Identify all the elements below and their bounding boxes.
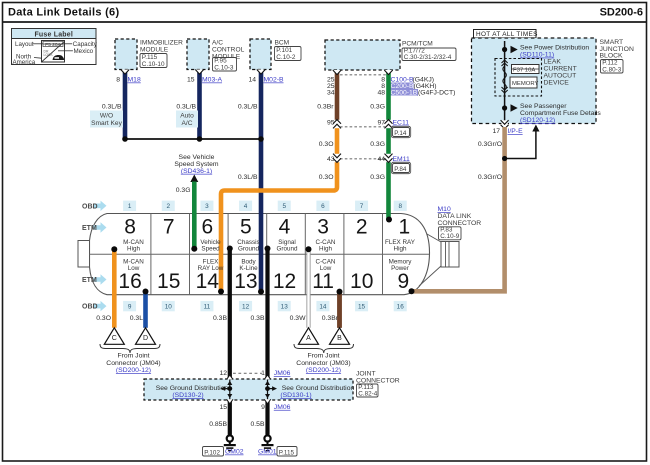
svg-text:P.115: P.115 bbox=[279, 449, 295, 456]
svg-text:8: 8 bbox=[398, 203, 402, 210]
svg-text:5: 5 bbox=[240, 216, 252, 239]
svg-text:A/C: A/C bbox=[212, 40, 223, 47]
sheet number SD200-6 bbox=[600, 7, 643, 19]
in-line connector EC11 bbox=[327, 120, 411, 138]
svg-text:See Ground Distribution: See Ground Distribution bbox=[156, 385, 229, 392]
svg-text:0.85B: 0.85B bbox=[209, 421, 227, 428]
svg-text:(SD200-12): (SD200-12) bbox=[306, 367, 341, 374]
svg-text:Connector (JM03): Connector (JM03) bbox=[296, 360, 350, 367]
svg-text:C.10-3: C.10-3 bbox=[214, 64, 234, 71]
svg-text:16: 16 bbox=[118, 270, 141, 293]
svg-text:IMMOBILIZER: IMMOBILIZER bbox=[140, 40, 183, 47]
svg-text:95: 95 bbox=[327, 120, 335, 127]
wire 0.3L M-CAN Low pin 16 to joint connector D bbox=[130, 292, 146, 328]
svg-text:Layout: Layout bbox=[15, 41, 34, 48]
svg-text:CURRENT: CURRENT bbox=[544, 66, 577, 73]
pin function labels top row bbox=[123, 239, 416, 253]
svg-text:(G4FJ-DCT): (G4FJ-DCT) bbox=[418, 90, 455, 97]
svg-text:P.102: P.102 bbox=[204, 449, 220, 456]
module box PCM/TCM bbox=[325, 40, 456, 70]
circuit tags 9-16 bbox=[123, 301, 407, 311]
svg-text:RAY Low: RAY Low bbox=[198, 265, 224, 272]
svg-text:0.3L/B: 0.3L/B bbox=[102, 103, 122, 110]
connector side view keying bbox=[419, 234, 459, 286]
brace + caption From Joint Connector (JM04) bbox=[100, 344, 161, 374]
svg-text:34: 34 bbox=[327, 90, 335, 97]
svg-text:0.3B: 0.3B bbox=[251, 315, 265, 322]
HOT AT ALL TIMES banner bbox=[474, 30, 538, 39]
svg-text:SD200-6: SD200-6 bbox=[600, 7, 643, 19]
in-line connector I/P-E pin 17 bbox=[492, 120, 523, 135]
svg-text:9: 9 bbox=[397, 270, 409, 293]
svg-text:HOT AT ALL TIMES: HOT AT ALL TIMES bbox=[476, 31, 538, 38]
svg-text:9: 9 bbox=[261, 404, 265, 411]
legend callout labels bbox=[13, 41, 98, 66]
svg-text:C.10-9: C.10-9 bbox=[440, 233, 459, 240]
PCM/TCM pin rows and connectors bbox=[327, 75, 455, 97]
branch arrow up into SJB bbox=[502, 125, 540, 162]
module box IMMOBILIZER MODULE bbox=[115, 39, 183, 70]
svg-text:0.3G: 0.3G bbox=[370, 174, 385, 181]
svg-text:14: 14 bbox=[196, 270, 220, 293]
svg-text:0.3O: 0.3O bbox=[319, 141, 334, 148]
data link connector M10 outline bbox=[78, 214, 430, 295]
JM06 outlet pins 15 / 9 bbox=[219, 404, 290, 411]
ETM arrow top bbox=[82, 222, 107, 232]
wire labels 0.85B / 0.5B bbox=[209, 421, 265, 428]
svg-text:F37 10A: F37 10A bbox=[513, 67, 535, 73]
svg-text:GM02: GM02 bbox=[225, 449, 244, 456]
JM06 inlet pins 12 / 1 bbox=[219, 370, 290, 377]
svg-text:High: High bbox=[394, 246, 407, 253]
svg-text:(SD200-12): (SD200-12) bbox=[116, 367, 151, 374]
svg-text:0.3G: 0.3G bbox=[176, 187, 191, 194]
svg-text:OBD: OBD bbox=[82, 304, 98, 311]
svg-text:A: A bbox=[306, 335, 311, 342]
pin junction dots bbox=[111, 217, 414, 295]
svg-text:0.3L/B: 0.3L/B bbox=[238, 174, 258, 181]
svg-text:43: 43 bbox=[327, 156, 335, 163]
module exit notches bbox=[121, 70, 393, 75]
wire 0.3G vehicle speed to pin 6 bbox=[176, 175, 199, 249]
svg-text:Power: Power bbox=[391, 265, 409, 272]
joint connector terminal D bbox=[136, 328, 156, 345]
wire 0.3B signal ground pin 4 bbox=[251, 249, 268, 435]
svg-text:Mexico: Mexico bbox=[74, 48, 94, 55]
svg-text:11: 11 bbox=[312, 270, 334, 293]
svg-text:0.5B: 0.5B bbox=[251, 421, 265, 428]
svg-text:High: High bbox=[127, 246, 140, 253]
svg-text:D: D bbox=[143, 335, 148, 342]
svg-text:EM11: EM11 bbox=[393, 156, 410, 163]
svg-text:8: 8 bbox=[124, 216, 136, 239]
svg-text:0.3W: 0.3W bbox=[290, 315, 306, 322]
svg-text:Connector (JM04): Connector (JM04) bbox=[106, 360, 160, 367]
svg-text:(SD120-12): (SD120-12) bbox=[520, 117, 555, 124]
svg-text:See Vehicle: See Vehicle bbox=[179, 154, 215, 161]
svg-text:BCM: BCM bbox=[275, 40, 290, 47]
svg-text:4: 4 bbox=[244, 203, 248, 210]
wire 0.3 L/B from A/C control bbox=[176, 70, 199, 140]
svg-text:P.14: P.14 bbox=[394, 130, 407, 137]
svg-text:Low: Low bbox=[320, 265, 332, 272]
svg-text:GM01: GM01 bbox=[258, 449, 277, 456]
connector pin numbers bottom row bbox=[118, 270, 409, 293]
svg-text:ETM: ETM bbox=[82, 277, 97, 284]
svg-text:Capacity: Capacity bbox=[73, 41, 98, 48]
OBD arrow top bbox=[82, 201, 107, 211]
svg-text:0.3B: 0.3B bbox=[213, 315, 227, 322]
pin function labels bottom row bbox=[123, 259, 412, 273]
joint connector terminal B bbox=[330, 328, 350, 345]
wire 0.3W C-CAN High pin 3 to joint connector A bbox=[290, 249, 309, 328]
JM06 internal arrow links bbox=[220, 375, 277, 404]
wire 0.3 L/B from BCM to pin 13 bbox=[238, 70, 261, 292]
svg-text:Ground: Ground bbox=[238, 246, 260, 253]
wire 0.3Gr/O memory power to pin 9 bbox=[412, 127, 505, 291]
svg-text:0.3Gr/O: 0.3Gr/O bbox=[478, 174, 502, 181]
pin 8 / connector M18 bbox=[116, 77, 141, 84]
svg-text:BLOCK: BLOCK bbox=[600, 53, 624, 60]
svg-text:12: 12 bbox=[242, 304, 250, 311]
svg-text:0.3Br: 0.3Br bbox=[317, 103, 334, 110]
svg-text:AUTOCUT: AUTOCUT bbox=[544, 73, 577, 80]
svg-text:(SD130-1): (SD130-1) bbox=[280, 392, 311, 399]
svg-text:0.3L: 0.3L bbox=[130, 315, 143, 322]
svg-text:EC11: EC11 bbox=[393, 120, 410, 127]
svg-text:C.82-4: C.82-4 bbox=[358, 390, 377, 397]
wire 0.3O EC11 to EM11 to pin 14 bbox=[221, 121, 337, 292]
smart junction block caption bbox=[600, 39, 634, 73]
smart junction block dashed box bbox=[472, 38, 597, 124]
svg-text:15: 15 bbox=[157, 270, 180, 293]
svg-text:LEAK: LEAK bbox=[544, 59, 562, 66]
fuse label legend box bbox=[12, 29, 97, 65]
ground GM02 bbox=[203, 435, 244, 456]
svg-text:Auto: Auto bbox=[180, 113, 194, 120]
wire 0.3B chassis ground pin 5 bbox=[213, 249, 230, 435]
svg-text:PCM/TCM: PCM/TCM bbox=[402, 41, 433, 48]
svg-text:17: 17 bbox=[492, 128, 500, 135]
module box A/C CONTROL MODULE bbox=[187, 39, 245, 71]
svg-text:15: 15 bbox=[187, 77, 195, 84]
svg-text:12: 12 bbox=[273, 270, 296, 293]
svg-text:C.30-2/31-2/32-4: C.30-2/31-2/32-4 bbox=[404, 54, 452, 61]
svg-text:0.3G: 0.3G bbox=[370, 103, 385, 110]
svg-text:C: C bbox=[112, 335, 117, 342]
joint connector caption bbox=[356, 371, 400, 398]
svg-text:M03-A: M03-A bbox=[202, 77, 222, 84]
svg-text:13: 13 bbox=[234, 270, 257, 293]
svg-text:C500-1B: C500-1B bbox=[391, 90, 418, 97]
pin 15 / connector M03-A bbox=[187, 77, 223, 84]
OBD arrow bottom bbox=[82, 301, 107, 311]
svg-text:6: 6 bbox=[201, 216, 213, 239]
svg-text:44: 44 bbox=[377, 156, 385, 163]
svg-text:DEVICE: DEVICE bbox=[544, 80, 570, 87]
svg-text:MODULE: MODULE bbox=[140, 47, 169, 54]
svg-text:0.3L/B: 0.3L/B bbox=[238, 103, 258, 110]
svg-text:0.3Gr/O: 0.3Gr/O bbox=[478, 141, 502, 148]
svg-text:MEMORY: MEMORY bbox=[512, 81, 538, 87]
tag W/O Smart Key bbox=[90, 111, 123, 128]
tag Auto A/C bbox=[176, 111, 198, 128]
svg-text:2: 2 bbox=[356, 216, 368, 239]
svg-text:Compartment Fuse Details: Compartment Fuse Details bbox=[520, 110, 601, 117]
svg-text:CONTROL: CONTROL bbox=[212, 47, 245, 54]
see ground distribution captions bbox=[156, 385, 355, 399]
node: see power distribution bbox=[502, 45, 589, 59]
joint connector terminal C bbox=[104, 328, 124, 345]
svg-text:10: 10 bbox=[165, 304, 173, 311]
svg-text:I/P-E: I/P-E bbox=[508, 128, 524, 135]
svg-text:High: High bbox=[319, 246, 332, 253]
svg-text:ETM: ETM bbox=[82, 225, 97, 232]
leak current autocut device box bbox=[495, 59, 542, 97]
SJB internal supply wire bbox=[504, 41, 506, 124]
svg-text:M10: M10 bbox=[438, 206, 451, 213]
wire 0.3Br PCM to EC11 bbox=[317, 70, 337, 121]
svg-text:6: 6 bbox=[321, 203, 325, 210]
svg-text:1: 1 bbox=[128, 203, 132, 210]
svg-text:12: 12 bbox=[219, 370, 227, 377]
svg-text:P.101: P.101 bbox=[276, 47, 292, 54]
connector pin numbers top row bbox=[124, 216, 410, 239]
svg-text:A/C: A/C bbox=[182, 120, 193, 127]
svg-text:0.3Br: 0.3Br bbox=[322, 315, 339, 322]
wire 0.3O M-CAN High pin 8 to joint connector C bbox=[96, 249, 114, 328]
svg-text:0.3G: 0.3G bbox=[370, 141, 385, 148]
svg-text:Ground: Ground bbox=[276, 246, 298, 253]
svg-text:7: 7 bbox=[163, 216, 175, 239]
svg-text:Low: Low bbox=[128, 265, 140, 272]
svg-text:16: 16 bbox=[397, 304, 405, 311]
node: see passenger compartment fuse details bbox=[502, 103, 601, 124]
svg-text:7: 7 bbox=[360, 203, 364, 210]
svg-text:0.3L/B: 0.3L/B bbox=[176, 103, 196, 110]
svg-text:B: B bbox=[337, 335, 342, 342]
joint connector terminal A bbox=[299, 328, 319, 345]
svg-text:14: 14 bbox=[319, 304, 327, 311]
svg-text:1: 1 bbox=[261, 370, 265, 377]
svg-text:K-Line: K-Line bbox=[239, 265, 258, 272]
svg-text:3: 3 bbox=[205, 203, 209, 210]
svg-text:13: 13 bbox=[281, 304, 289, 311]
svg-text:See Ground Distribution: See Ground Distribution bbox=[282, 385, 355, 392]
svg-text:5: 5 bbox=[282, 203, 286, 210]
M10 data link connector caption bbox=[438, 206, 482, 240]
svg-text:9: 9 bbox=[128, 304, 132, 311]
svg-text:1: 1 bbox=[398, 216, 410, 239]
see vehicle speed system reference bbox=[174, 154, 219, 175]
svg-text:America: America bbox=[13, 59, 36, 66]
svg-text:C.10-2: C.10-2 bbox=[276, 54, 296, 61]
svg-text:2: 2 bbox=[166, 203, 170, 210]
svg-text:Speed System: Speed System bbox=[174, 161, 219, 168]
svg-text:0.3O: 0.3O bbox=[96, 315, 111, 322]
svg-text:(SD436-1): (SD436-1) bbox=[181, 168, 212, 175]
leak current autocut device caption bbox=[544, 59, 577, 87]
svg-text:F5 20A: F5 20A bbox=[45, 42, 62, 48]
svg-text:4: 4 bbox=[279, 216, 291, 239]
svg-text:From Joint: From Joint bbox=[117, 353, 149, 360]
svg-text:48: 48 bbox=[377, 90, 385, 97]
wire 0.3 L/B from immobilizer bbox=[102, 70, 125, 140]
fuse icon in legend bbox=[42, 41, 65, 63]
svg-text:14: 14 bbox=[248, 77, 256, 84]
svg-text:(SD130-2): (SD130-2) bbox=[172, 392, 203, 399]
svg-text:P.115: P.115 bbox=[142, 54, 158, 61]
svg-text:Fuse Label: Fuse Label bbox=[34, 31, 73, 38]
svg-text:JM06: JM06 bbox=[274, 370, 291, 377]
title Data Link Details (6) bbox=[8, 7, 119, 19]
module box BCM bbox=[250, 39, 301, 70]
svg-text:97: 97 bbox=[377, 120, 385, 127]
svg-text:M18: M18 bbox=[128, 77, 141, 84]
svg-text:P.84: P.84 bbox=[394, 166, 407, 173]
svg-text:C.10-10: C.10-10 bbox=[142, 61, 165, 68]
svg-text:W/O: W/O bbox=[100, 113, 113, 120]
brace + caption From Joint Connector (JM03) bbox=[294, 344, 354, 374]
svg-text:Smart Key: Smart Key bbox=[91, 120, 122, 127]
ground GM01 bbox=[258, 435, 297, 456]
svg-text:C.80-3: C.80-3 bbox=[602, 66, 621, 73]
svg-text:See Power Distribution: See Power Distribution bbox=[520, 45, 589, 52]
svg-text:15: 15 bbox=[358, 304, 366, 311]
ETM arrow bottom bbox=[82, 274, 107, 284]
svg-text:0.3O: 0.3O bbox=[319, 174, 334, 181]
K-line bus junction line bbox=[122, 136, 264, 142]
svg-text:Data Link Details (6): Data Link Details (6) bbox=[8, 7, 119, 19]
svg-text:8: 8 bbox=[116, 77, 120, 84]
svg-text:Speed: Speed bbox=[201, 246, 220, 253]
svg-text:M02-B: M02-B bbox=[264, 77, 284, 84]
wire 0.3G PCM to pin 1 bbox=[370, 70, 388, 220]
in-line connector EM11 bbox=[327, 154, 411, 174]
svg-text:10: 10 bbox=[350, 270, 373, 293]
wire 0.3Br C-CAN Low pin 11 to joint connector B bbox=[337, 292, 342, 328]
svg-text:JM06: JM06 bbox=[274, 404, 291, 411]
svg-text:From Joint: From Joint bbox=[307, 353, 339, 360]
circuit tags 1-8 bbox=[123, 201, 407, 211]
svg-text:11: 11 bbox=[204, 304, 211, 311]
svg-text:LOCK: LOCK bbox=[44, 53, 54, 57]
ground distribution dashed box JM06 bbox=[144, 379, 353, 400]
pin 14 / connector M02-B bbox=[248, 77, 284, 84]
svg-text:15: 15 bbox=[219, 404, 227, 411]
svg-text:OBD: OBD bbox=[82, 203, 98, 210]
svg-text:See Passenger: See Passenger bbox=[520, 103, 567, 110]
svg-text:3: 3 bbox=[317, 216, 329, 239]
